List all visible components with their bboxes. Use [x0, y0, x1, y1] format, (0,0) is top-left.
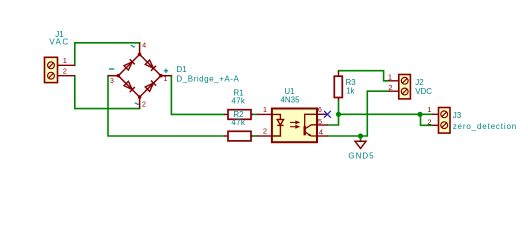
svg-text:VDC: VDC — [415, 87, 432, 96]
svg-text:J3: J3 — [453, 111, 462, 120]
svg-text:1: 1 — [427, 105, 431, 114]
svg-text:1: 1 — [388, 73, 392, 82]
svg-text:GND5: GND5 — [348, 152, 374, 161]
svg-text:47k: 47k — [231, 118, 245, 127]
svg-text:1: 1 — [63, 56, 67, 65]
svg-text:2: 2 — [427, 118, 431, 127]
svg-text:6: 6 — [318, 105, 322, 114]
svg-text:D_Bridge_+A-A: D_Bridge_+A-A — [176, 75, 239, 84]
svg-text:J2: J2 — [415, 78, 424, 87]
svg-text:1k: 1k — [346, 87, 355, 96]
svg-text:3: 3 — [110, 78, 114, 85]
svg-text:2: 2 — [142, 102, 146, 109]
svg-text:2: 2 — [388, 83, 392, 92]
svg-text:D1: D1 — [176, 65, 187, 74]
svg-text:2: 2 — [63, 66, 67, 75]
svg-text:1: 1 — [263, 105, 267, 114]
svg-text:4: 4 — [319, 127, 323, 136]
svg-text:VAC: VAC — [49, 38, 69, 47]
svg-text:5: 5 — [318, 117, 322, 126]
svg-text:4: 4 — [142, 43, 146, 50]
svg-text:47k: 47k — [231, 96, 245, 105]
svg-text:4N35: 4N35 — [280, 96, 300, 105]
svg-text:1: 1 — [164, 76, 168, 83]
svg-text:zero_detection: zero_detection — [453, 122, 517, 131]
svg-text:2: 2 — [263, 127, 267, 136]
